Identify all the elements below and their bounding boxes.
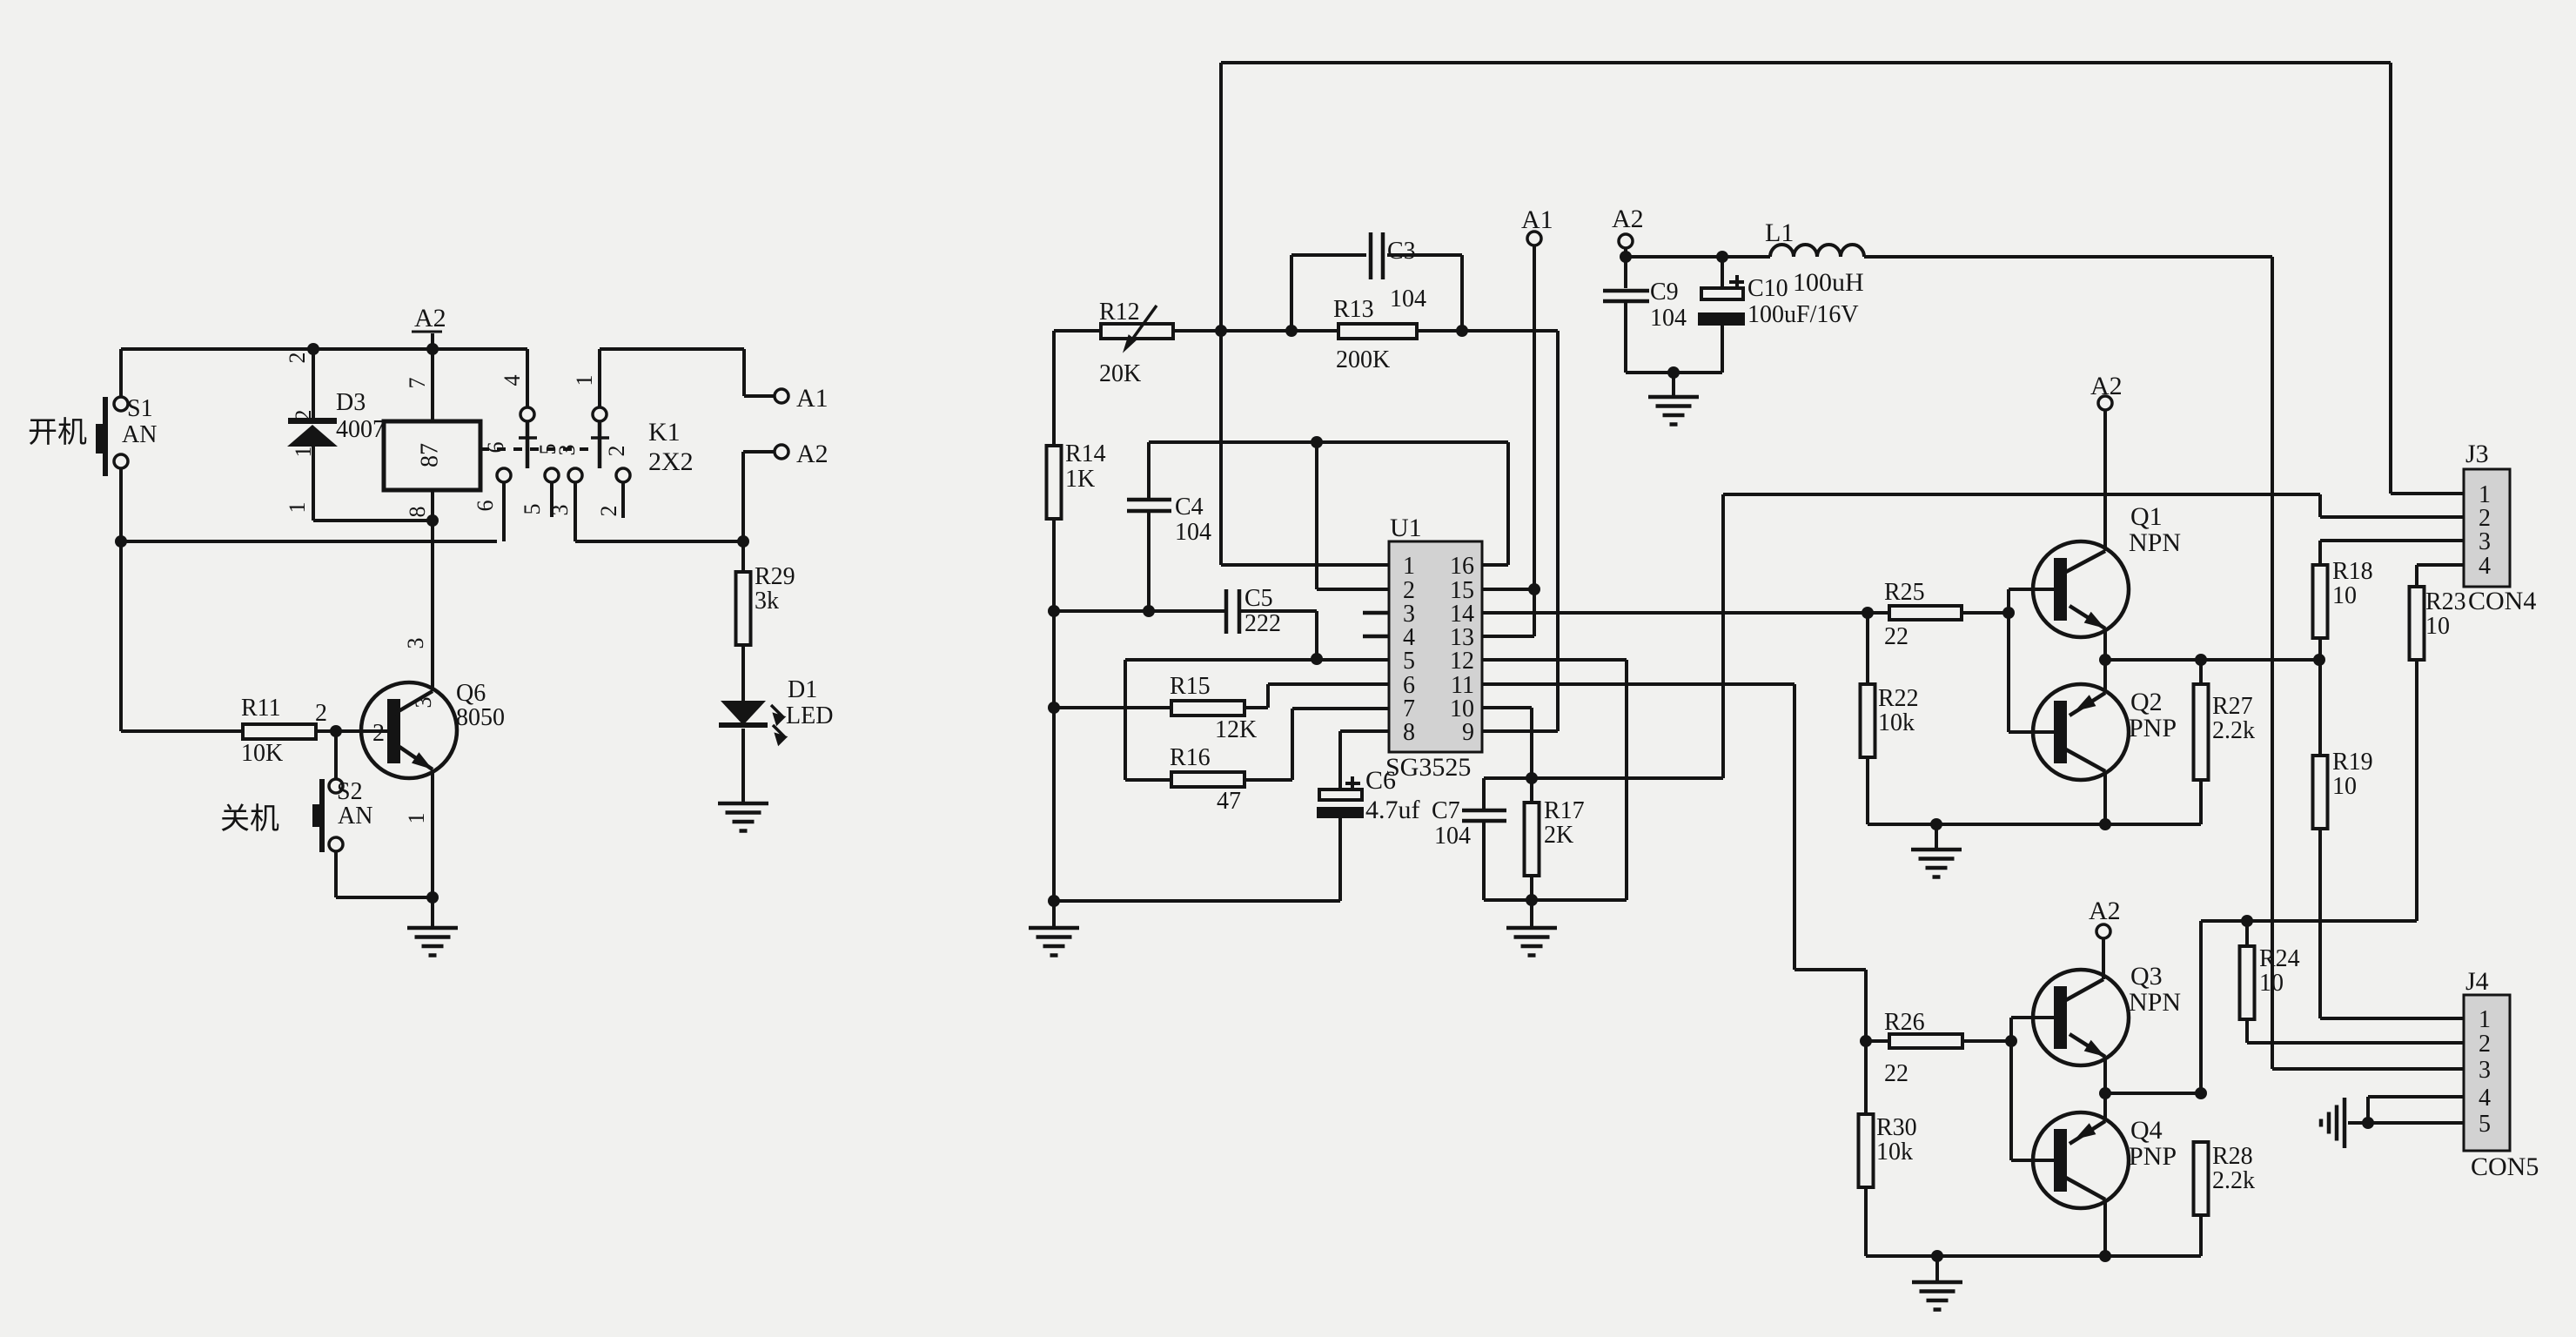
svg-text:5: 5	[520, 504, 545, 515]
svg-text:3: 3	[547, 505, 573, 516]
svg-text:R17: R17	[1544, 797, 1585, 824]
svg-text:10: 10	[2425, 613, 2450, 640]
svg-text:10: 10	[2259, 970, 2284, 997]
svg-text:2: 2	[2479, 1031, 2491, 1058]
svg-text:R15: R15	[1170, 673, 1211, 700]
svg-text:1: 1	[404, 813, 429, 824]
svg-text:12K: 12K	[1215, 716, 1257, 743]
svg-text:C9: C9	[1650, 279, 1679, 306]
svg-text:1: 1	[572, 375, 597, 386]
svg-text:3: 3	[403, 638, 428, 649]
svg-text:R23: R23	[2425, 588, 2466, 615]
svg-text:R27: R27	[2212, 693, 2253, 720]
svg-text:S1: S1	[127, 395, 153, 422]
svg-text:AN: AN	[122, 421, 157, 448]
svg-text:10: 10	[2332, 773, 2357, 800]
svg-text:6: 6	[483, 442, 508, 454]
svg-text:4: 4	[2479, 553, 2491, 580]
svg-text:10: 10	[2332, 582, 2357, 609]
svg-text:2.2k: 2.2k	[2212, 717, 2255, 744]
svg-text:AN: AN	[338, 803, 372, 830]
svg-text:R13: R13	[1333, 296, 1374, 323]
svg-text:104: 104	[1390, 286, 1426, 312]
svg-text:4007: 4007	[336, 416, 385, 443]
svg-text:PNP: PNP	[2129, 1142, 2177, 1171]
svg-text:2.2k: 2.2k	[2212, 1167, 2255, 1194]
svg-text:D1: D1	[788, 676, 817, 703]
svg-text:3: 3	[411, 697, 436, 709]
svg-text:22: 22	[1884, 1060, 1909, 1087]
svg-text:J3: J3	[2465, 440, 2489, 468]
svg-text:R25: R25	[1884, 579, 1925, 606]
svg-text:3: 3	[554, 445, 580, 456]
svg-text:Q3: Q3	[2130, 962, 2163, 991]
svg-text:9: 9	[1462, 719, 1474, 746]
svg-text:R16: R16	[1170, 744, 1211, 771]
svg-text:U1: U1	[1390, 514, 1422, 542]
svg-text:PNP: PNP	[2129, 714, 2177, 742]
svg-text:开机: 开机	[28, 416, 87, 449]
svg-text:A1: A1	[1521, 205, 1553, 234]
svg-text:1: 1	[1403, 553, 1415, 580]
svg-text:R26: R26	[1884, 1009, 1925, 1036]
svg-text:SG3525: SG3525	[1385, 753, 1471, 782]
svg-text:20K: 20K	[1099, 360, 1141, 387]
svg-text:8: 8	[1403, 719, 1415, 746]
svg-text:2: 2	[604, 446, 629, 457]
svg-text:R30: R30	[1876, 1114, 1917, 1141]
svg-text:A2: A2	[1612, 205, 1644, 233]
svg-text:Q1: Q1	[2130, 502, 2163, 531]
svg-text:1: 1	[285, 502, 310, 514]
svg-text:R19: R19	[2332, 749, 2373, 776]
svg-text:8050: 8050	[456, 704, 505, 731]
svg-text:L1: L1	[1765, 218, 1794, 247]
svg-text:16: 16	[1450, 553, 1474, 580]
svg-text:S2: S2	[337, 778, 363, 805]
svg-text:C10: C10	[1748, 275, 1788, 302]
svg-text:C3: C3	[1387, 238, 1416, 265]
svg-text:R28: R28	[2212, 1143, 2253, 1170]
svg-text:R12: R12	[1099, 299, 1140, 326]
svg-text:D3: D3	[336, 389, 366, 416]
svg-text:A1: A1	[796, 384, 828, 413]
svg-text:Q2: Q2	[2130, 688, 2163, 716]
svg-text:R14: R14	[1065, 440, 1106, 467]
svg-text:R18: R18	[2332, 558, 2373, 585]
svg-text:关机: 关机	[220, 803, 279, 836]
svg-text:Q6: Q6	[456, 680, 486, 707]
svg-text:Q4: Q4	[2130, 1116, 2163, 1145]
svg-text:104: 104	[1434, 823, 1471, 850]
svg-text:100uH: 100uH	[1793, 268, 1864, 297]
svg-text:5: 5	[1403, 648, 1415, 675]
svg-text:C4: C4	[1175, 494, 1204, 521]
svg-text:A2: A2	[414, 304, 446, 333]
svg-text:104: 104	[1175, 519, 1211, 546]
svg-text:CON4: CON4	[2468, 587, 2536, 615]
svg-text:3: 3	[2479, 1057, 2491, 1084]
svg-text:C7: C7	[1432, 797, 1460, 824]
svg-text:5: 5	[2479, 1111, 2491, 1138]
svg-text:4.7uf: 4.7uf	[1365, 796, 1420, 824]
svg-text:R24: R24	[2259, 945, 2300, 972]
svg-text:R22: R22	[1878, 685, 1919, 712]
svg-text:3: 3	[2479, 528, 2491, 555]
svg-text:A2: A2	[796, 440, 828, 468]
svg-text:104: 104	[1650, 305, 1687, 332]
svg-text:222: 222	[1244, 610, 1281, 637]
svg-text:CON5: CON5	[2471, 1152, 2539, 1181]
svg-text:2: 2	[315, 700, 327, 727]
svg-text:4: 4	[2479, 1085, 2491, 1112]
svg-text:A2: A2	[2089, 897, 2121, 925]
svg-text:2K: 2K	[1544, 822, 1573, 849]
svg-text:R11: R11	[241, 695, 281, 722]
svg-text:100uF/16V: 100uF/16V	[1748, 301, 1859, 328]
svg-text:1: 1	[2479, 1006, 2491, 1033]
svg-text:NPN: NPN	[2129, 988, 2181, 1017]
svg-text:8: 8	[405, 507, 430, 518]
svg-text:NPN: NPN	[2129, 528, 2181, 557]
svg-text:47: 47	[1217, 788, 1241, 815]
svg-text:4: 4	[500, 375, 525, 386]
svg-text:2: 2	[291, 410, 316, 421]
svg-text:1K: 1K	[1065, 466, 1095, 493]
svg-text:3k: 3k	[755, 588, 779, 615]
svg-text:10k: 10k	[1878, 709, 1915, 736]
svg-text:K1: K1	[648, 418, 681, 447]
svg-text:J4: J4	[2465, 967, 2489, 996]
svg-text:200K: 200K	[1336, 346, 1390, 373]
svg-text:2: 2	[596, 506, 621, 517]
svg-text:R29: R29	[755, 563, 795, 590]
svg-text:2: 2	[285, 353, 310, 364]
svg-text:7: 7	[405, 378, 430, 389]
svg-text:22: 22	[1884, 623, 1909, 650]
svg-text:C5: C5	[1244, 585, 1273, 612]
svg-text:1: 1	[291, 447, 316, 458]
svg-text:LED: LED	[786, 702, 833, 729]
svg-text:6: 6	[473, 501, 498, 512]
svg-text:10K: 10K	[241, 740, 283, 767]
svg-text:87: 87	[416, 443, 443, 467]
svg-text:12: 12	[1450, 648, 1474, 675]
svg-text:2: 2	[372, 720, 385, 747]
svg-text:2X2: 2X2	[648, 447, 694, 476]
svg-text:10k: 10k	[1876, 1139, 1913, 1166]
